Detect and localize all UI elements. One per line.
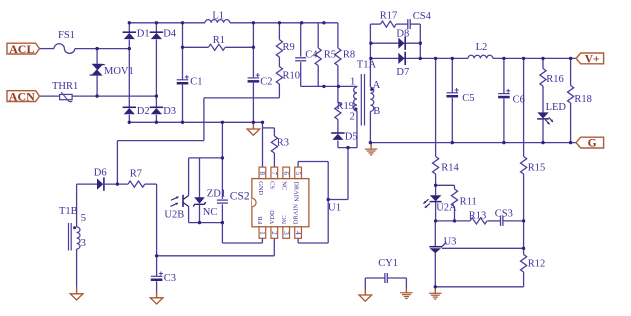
svg-text:C6: C6: [513, 95, 525, 106]
svg-text:DRAIN: DRAIN: [293, 181, 300, 202]
svg-text:R8: R8: [343, 50, 355, 61]
svg-text:FB: FB: [257, 216, 264, 224]
svg-text:4: 4: [294, 231, 302, 235]
svg-text:G: G: [588, 138, 597, 150]
svg-text:6: 6: [282, 172, 290, 176]
svg-text:U3: U3: [444, 236, 457, 247]
svg-text:T1B: T1B: [59, 206, 78, 217]
svg-text:L1: L1: [212, 11, 224, 22]
svg-text:D2: D2: [137, 106, 150, 117]
svg-text:U1: U1: [328, 201, 341, 213]
svg-text:R12: R12: [528, 258, 546, 269]
svg-text:U2B: U2B: [164, 209, 184, 220]
svg-text:R1: R1: [213, 35, 225, 46]
svg-text:NC: NC: [203, 207, 218, 218]
svg-text:C3: C3: [164, 273, 176, 284]
svg-text:L2: L2: [476, 42, 488, 53]
svg-text:1: 1: [350, 76, 355, 87]
svg-text:3: 3: [282, 231, 290, 235]
svg-text:D1: D1: [137, 29, 150, 40]
svg-text:C2: C2: [260, 77, 272, 88]
svg-text:ZD1: ZD1: [207, 189, 226, 200]
svg-text:C4: C4: [305, 50, 318, 61]
svg-text:CS2: CS2: [230, 190, 250, 202]
svg-text:1: 1: [258, 231, 266, 235]
svg-text:7: 7: [270, 172, 278, 176]
svg-text:D3: D3: [163, 106, 176, 117]
svg-text:5: 5: [294, 172, 302, 176]
svg-text:R3: R3: [277, 138, 289, 149]
svg-text:FS1: FS1: [58, 30, 75, 41]
svg-text:R18: R18: [574, 94, 592, 105]
svg-text:R16: R16: [546, 74, 564, 85]
svg-text:3: 3: [81, 238, 86, 249]
svg-text:ACL: ACL: [9, 42, 34, 56]
svg-text:2: 2: [270, 231, 278, 235]
svg-text:THR1: THR1: [52, 81, 78, 92]
svg-text:D8: D8: [396, 28, 409, 39]
svg-text:C5: C5: [462, 93, 474, 104]
svg-text:CY1: CY1: [378, 258, 398, 269]
svg-text:CS: CS: [269, 181, 276, 189]
svg-text:V+: V+: [585, 53, 600, 65]
svg-text:U2A: U2A: [436, 203, 457, 214]
svg-text:R14: R14: [441, 162, 459, 173]
svg-text:R11: R11: [460, 197, 477, 208]
svg-text:R19: R19: [337, 101, 355, 112]
svg-text:MOV1: MOV1: [104, 66, 134, 77]
svg-text:R15: R15: [528, 162, 546, 173]
svg-text:DRAIN: DRAIN: [293, 204, 300, 225]
svg-text:T1A: T1A: [357, 59, 377, 70]
svg-text:R9: R9: [283, 42, 295, 53]
svg-text:A: A: [373, 80, 381, 91]
svg-text:R17: R17: [380, 11, 398, 22]
svg-text:D5: D5: [345, 132, 358, 143]
svg-text:D4: D4: [163, 29, 177, 40]
svg-text:VDD: VDD: [269, 210, 276, 224]
svg-text:D6: D6: [94, 168, 107, 179]
svg-text:CS4: CS4: [413, 11, 432, 22]
svg-text:C1: C1: [190, 76, 202, 87]
svg-text:ACN: ACN: [9, 89, 35, 103]
svg-text:D7: D7: [396, 67, 409, 78]
svg-text:8: 8: [258, 172, 266, 176]
svg-text:R10: R10: [283, 71, 301, 82]
svg-text:NC: NC: [281, 215, 288, 224]
svg-text:B: B: [373, 106, 380, 117]
svg-text:LED: LED: [546, 102, 567, 113]
svg-text:5: 5: [81, 213, 86, 224]
svg-text:CS3: CS3: [495, 209, 513, 220]
svg-text:GND: GND: [257, 181, 264, 195]
svg-text:R7: R7: [130, 169, 142, 180]
svg-text:NC: NC: [281, 181, 288, 190]
svg-text:R13: R13: [469, 210, 487, 221]
svg-text:2: 2: [350, 112, 355, 123]
svg-text:R5: R5: [324, 50, 336, 61]
